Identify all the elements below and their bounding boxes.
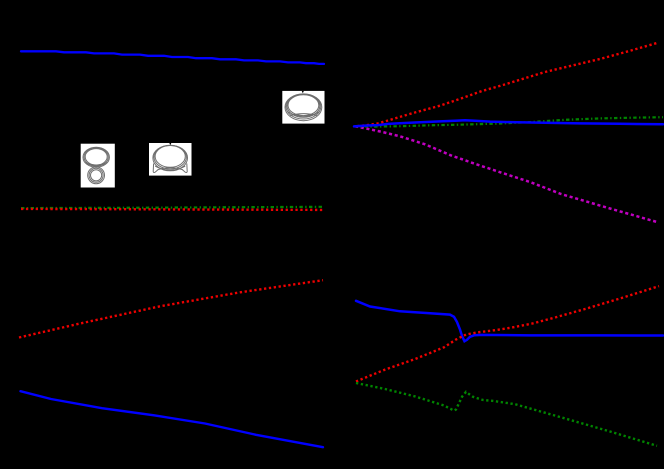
blue curve bottom-left panel (21, 391, 324, 447)
magenta dashed curve top-right panel (355, 126, 657, 222)
red dotted curve top-left panel (21, 209, 323, 210)
red dotted curve top-right panel (357, 43, 657, 126)
blue curve top-right panel (354, 120, 663, 126)
green dash-dot curve top-left panel (21, 207, 323, 208)
inset box C (oval rings) (282, 91, 324, 124)
inset box A (two lobes) (81, 144, 115, 188)
inset box B (ellipse with skirt) (149, 143, 192, 176)
red dotted curve bottom-right panel (356, 286, 659, 381)
blue curve bottom-right panel (with dip) (356, 301, 663, 341)
green dash-dot curve top-right panel (355, 117, 663, 126)
tick marker on inset B (169, 143, 171, 145)
red dotted curve bottom-left panel (19, 280, 323, 337)
blue stepped curve top-left panel (21, 51, 324, 64)
green dotted curve bottom-right panel (with spike) (356, 383, 657, 446)
tick marker on inset C (302, 91, 304, 93)
